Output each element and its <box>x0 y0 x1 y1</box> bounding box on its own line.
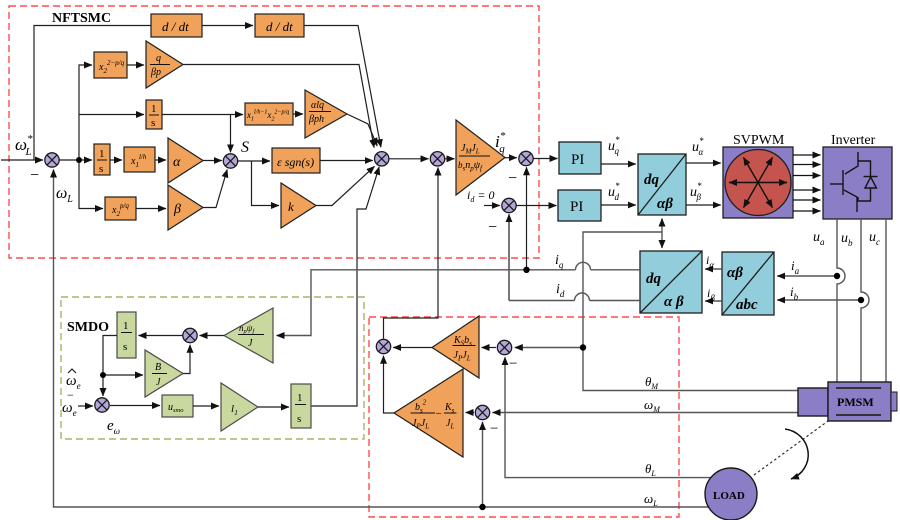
gain triangle l1 <box>221 383 258 431</box>
wire ua phase line with ia tap <box>54 170 887 508</box>
block PMSM motor <box>798 382 897 421</box>
wire omega_e input <box>78 405 93 407</box>
svg-text:βph: βph <box>308 114 324 125</box>
svg-text:abc: abc <box>736 297 758 313</box>
junction iq* <box>519 151 533 165</box>
wire PI2 to dq block <box>601 204 636 206</box>
wire omega_L* input <box>1 159 43 161</box>
wire omega_L branch up into speed junction <box>482 422 484 507</box>
svg-text:s: s <box>297 413 301 425</box>
svg-text:PMSM: PMSM <box>837 395 874 409</box>
svg-text:Inverter: Inverter <box>831 133 876 148</box>
block d/dt first <box>151 14 202 37</box>
wire q/bp to big sum junction <box>183 65 374 148</box>
wire eps sgn to big junction <box>320 160 373 162</box>
resonance suppression dashed boundary box <box>369 317 679 517</box>
block u_smo <box>162 395 193 417</box>
gain triangle k <box>281 183 316 228</box>
wire ib measurement <box>777 299 861 301</box>
wire omega_M from PMSM <box>493 412 800 414</box>
svg-text:d / dt: d / dt <box>266 19 293 34</box>
wire S branch down to k <box>252 161 280 206</box>
svg-text:1: 1 <box>123 320 129 332</box>
gain triangle bs^2/(JpJl)-Ks/Jl (left pointing) <box>394 369 463 457</box>
wire S junction to eps sgn <box>238 160 270 162</box>
block 1/s SMDO integrator upper <box>117 312 136 358</box>
svg-text:J: J <box>156 377 161 388</box>
block x2^(2-p/q) <box>94 52 127 78</box>
node dot SMDO omega_hat <box>100 372 106 378</box>
gain triangle B/J <box>145 350 183 397</box>
svg-text:LOAD: LOAD <box>713 490 745 502</box>
block 1/s upper <box>146 100 162 129</box>
svg-text:αβ: αβ <box>727 265 743 281</box>
svg-text:B: B <box>155 362 161 373</box>
wire u_smo to l1 <box>193 405 219 407</box>
node dot ib tap <box>858 297 864 303</box>
node dot after J1 <box>76 157 82 163</box>
junction J1 speed error <box>45 153 59 167</box>
wire x1^(l/h) to alpha <box>155 159 166 161</box>
block x1^(l/h) <box>124 147 155 172</box>
junction speed difference <box>475 405 489 419</box>
svg-text:SVPWM: SVPWM <box>733 133 785 148</box>
node dot omega_L line <box>479 504 485 510</box>
wire ub phase line with ib tap <box>861 219 869 382</box>
hop iq over theta wire <box>576 262 591 269</box>
wire dq to SVPWM ua <box>686 162 721 164</box>
wire npPsif/J output into SMDO sum junction <box>200 335 225 337</box>
wire Ks triangle into left junction <box>393 347 432 349</box>
svg-text:s: s <box>123 341 127 353</box>
svg-text:αβ: αβ <box>657 196 673 212</box>
wire iq* junction to PI1 <box>534 158 558 160</box>
SVPWM to inverter six arrows <box>793 155 821 211</box>
block dq/alphabeta voltage transform <box>638 154 686 215</box>
svg-text:β: β <box>173 202 181 217</box>
rotation arc arrow <box>785 429 808 479</box>
wire d/dt2 to big sum junction <box>304 26 381 148</box>
block LOAD circle <box>705 468 757 520</box>
wire iq feedback up into iq* junction <box>526 167 528 269</box>
block Inverter <box>823 147 892 219</box>
block d/dt second <box>255 14 304 37</box>
svg-text:J: J <box>248 338 253 349</box>
svg-text:ε sgn(s): ε sgn(s) <box>277 155 314 169</box>
block SVPWM <box>723 147 793 218</box>
wire theta_M from PMSM <box>583 232 799 391</box>
wire id junction to PI2 <box>517 205 557 207</box>
wire theta_e into voltage dq <box>661 219 663 233</box>
junction J4 <box>430 152 444 166</box>
svg-text:−: − <box>490 421 498 437</box>
wire ia measurement <box>777 275 837 277</box>
wire omega_L from LOAD big loop <box>54 170 711 508</box>
svg-text:u*d: u*d <box>608 181 620 202</box>
wire x2^(p/q) to beta <box>136 208 166 210</box>
wire d/dt1 to d/dt2 <box>202 25 253 27</box>
svg-text:1: 1 <box>151 103 157 115</box>
wire i_beta <box>705 300 722 302</box>
svg-text:α β: α β <box>664 294 684 310</box>
wire torsion junction to Ks triangle <box>482 347 497 349</box>
svg-text:s: s <box>99 163 103 175</box>
svg-text:u*q: u*q <box>608 135 620 156</box>
svg-text:S: S <box>241 139 249 156</box>
svg-text:s: s <box>151 117 155 129</box>
svg-text:k: k <box>288 199 294 214</box>
wire B/J output up into SMDO junction <box>183 345 190 374</box>
wire l1 to 1/s output <box>258 406 289 408</box>
wire branch to 1/s upper <box>79 114 144 116</box>
svg-text:PI: PI <box>570 199 583 215</box>
svg-text:q: q <box>156 53 161 64</box>
wire x1x2 block to alq triangle <box>293 113 303 115</box>
wire theta_M tap into torsion junction <box>515 347 583 349</box>
svg-text:−: − <box>509 356 517 372</box>
wire alq triangle to big sum junction <box>347 114 377 146</box>
svg-text:αlq: αlq <box>311 100 324 111</box>
wire theta_e into current dq <box>661 232 663 248</box>
wire x2^(2-p/q) to q/bp triangle <box>127 64 144 66</box>
svg-text:1: 1 <box>297 392 303 404</box>
svg-text:−: − <box>30 167 39 184</box>
junction big sum <box>375 152 389 166</box>
wire branch to B/J <box>103 374 143 376</box>
wire id feedback long <box>509 300 640 302</box>
SVPWM star arrows <box>729 157 787 207</box>
wire iq feedback long <box>277 270 641 336</box>
block dq/alphabeta current transform <box>640 251 702 313</box>
node dot theta_M line <box>580 344 586 350</box>
svg-text:SMDO: SMDO <box>67 320 109 335</box>
wire k to big junction <box>316 166 375 205</box>
wire e_omega junction to u_smo <box>110 405 160 407</box>
junction e_omega <box>95 398 109 412</box>
wire bs2 triangle up into left junction <box>384 356 395 413</box>
wire SMDO output into big junction <box>311 167 379 406</box>
svg-text:d / dt: d / dt <box>162 19 189 34</box>
wire id=0 input <box>484 205 500 207</box>
wire theta_L from LOAD <box>505 357 712 477</box>
block 1/s middle <box>94 144 110 175</box>
shaft dashed line PMSM to LOAD <box>754 421 828 475</box>
svg-text:−: − <box>488 219 497 236</box>
junction S sliding surface <box>223 154 237 168</box>
svg-text:u*α: u*α <box>692 136 704 157</box>
wire 1/s upper down to e_omega junction <box>103 336 117 397</box>
block PI current <box>558 190 601 221</box>
wire branch to x2^(p/q) <box>79 160 103 209</box>
wire uc phase line <box>885 219 887 382</box>
svg-text:PI: PI <box>571 152 584 168</box>
inverter IGBT sketch <box>830 152 878 212</box>
block x1^(l/h-1)x2^(2-p/q) <box>245 103 293 125</box>
wire branch omega* up to d/dt <box>34 26 151 161</box>
svg-text:βp: βp <box>150 67 161 78</box>
junction torsion angle <box>497 340 511 354</box>
gain triangle Ks bs/(Jp Jl) (left pointing) <box>432 316 479 378</box>
junction resonance sum <box>376 339 390 353</box>
svg-text:dq: dq <box>644 172 660 188</box>
wire resonance output up into J4 <box>384 168 439 339</box>
hop id over theta wire <box>575 293 590 300</box>
node dot iq line <box>523 267 529 273</box>
svg-text:1: 1 <box>99 148 105 160</box>
wire JmJl triangle to iq* junction <box>505 157 517 159</box>
wire big junction to J4 <box>389 158 428 160</box>
block x2^(p/q) <box>105 197 136 220</box>
wire PI1 to dq block <box>601 163 636 165</box>
svg-text:α: α <box>173 155 181 170</box>
junction SMDO top <box>183 328 197 342</box>
gain triangle beta <box>168 185 203 230</box>
NFTSMC dashed boundary box <box>9 6 539 258</box>
svg-text:−: − <box>436 408 442 420</box>
gain triangle np psi_f / J (left pointing) <box>224 308 273 363</box>
SMDO dashed boundary box <box>61 297 364 439</box>
junction id <box>502 198 516 212</box>
wire alpha to S junction <box>203 160 222 162</box>
block epsilon sgn(s) <box>272 148 320 173</box>
wire id feedback up into id junction <box>508 214 510 300</box>
block 1/s SMDO output <box>291 384 311 428</box>
wire i_alpha <box>705 268 722 270</box>
node dot ia tap <box>834 273 840 279</box>
svg-text:dq: dq <box>646 271 662 287</box>
wire dq to SVPWM ub <box>686 204 721 206</box>
svg-text:−: − <box>508 170 517 187</box>
wire branch to x2^(2-p/q) <box>79 65 92 160</box>
gain triangle q/(beta p) <box>146 41 183 88</box>
gain triangle alq/(beta ph) <box>305 90 347 138</box>
svg-text:NFTSMC: NFTSMC <box>52 11 111 26</box>
wire SMDO junction to 1/s upper <box>139 335 183 337</box>
gain triangle alpha <box>168 138 203 183</box>
wire 1/s upper to x1 x2 block <box>162 114 243 116</box>
wire speed diff junction to bs2 triangle <box>466 412 475 414</box>
block alphabeta/abc transform <box>722 252 774 315</box>
gain triangle JmJl/(bs np psi_f) <box>456 120 505 195</box>
wire branch down into S junction <box>230 115 232 153</box>
wire J1 to 1/s middle <box>60 159 93 161</box>
block PI speed <box>559 142 601 174</box>
wire J4 to JmJl triangle <box>445 158 454 160</box>
svg-text:u*β: u*β <box>690 181 702 202</box>
wire 1/s middle to x1^(l/h) <box>110 159 122 161</box>
wire beta to S junction <box>203 170 227 208</box>
